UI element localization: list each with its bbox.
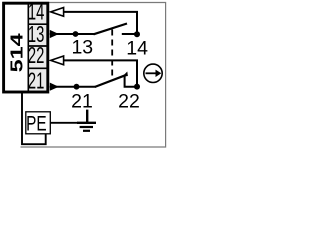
junction dot on wire 13 bbox=[73, 31, 79, 37]
svg-text:21: 21 bbox=[71, 90, 93, 112]
PE wire to earth bbox=[51, 122, 79, 124]
fixed contact stub 14 bbox=[122, 33, 137, 35]
cell divider 14/13 bbox=[29, 23, 47, 25]
wire 21 bbox=[50, 86, 96, 88]
connector socket terminal 14 bbox=[51, 8, 64, 17]
fixed contact riser 22 bbox=[125, 75, 137, 87]
wire 13 bbox=[50, 33, 94, 35]
contact node 22 bbox=[134, 84, 140, 90]
svg-text:PE: PE bbox=[26, 111, 46, 135]
contact node 14 bbox=[134, 31, 140, 37]
junction dot on wire 21 bbox=[74, 84, 80, 90]
wire 22 to contact bbox=[64, 60, 137, 84]
contact 21-22 moving blade bbox=[95, 75, 127, 87]
svg-text:22: 22 bbox=[118, 91, 140, 113]
connector pin terminal 13 bbox=[50, 30, 59, 38]
svg-text:22: 22 bbox=[28, 44, 44, 69]
svg-text:514: 514 bbox=[7, 33, 27, 72]
svg-text:14: 14 bbox=[28, 0, 45, 25]
terminal column divider bbox=[27, 4, 29, 92]
enclosure bonding wire to PE bbox=[22, 92, 46, 145]
connector socket terminal 22 bbox=[51, 56, 64, 65]
connector pin terminal 21 bbox=[50, 83, 59, 91]
svg-text:21: 21 bbox=[28, 69, 44, 94]
switch enclosure box 514 bbox=[4, 3, 48, 92]
earth ground symbol bbox=[77, 110, 96, 131]
cell divider 22/21 bbox=[29, 67, 47, 69]
border frame bbox=[3, 3, 166, 148]
positive-opening symbol (circle with arrow) bbox=[144, 64, 162, 82]
contact 13-14 moving blade bbox=[94, 24, 128, 35]
svg-text:13: 13 bbox=[71, 36, 93, 58]
blade tip contact piece bbox=[122, 72, 128, 77]
cell divider 13/22 bbox=[29, 45, 47, 47]
svg-text:14: 14 bbox=[126, 37, 148, 59]
mechanical linkage (dashed) bbox=[111, 30, 113, 80]
wire 14 to contact bbox=[64, 12, 137, 32]
PE terminal box bbox=[26, 112, 51, 134]
terminal cells background bbox=[29, 4, 48, 92]
